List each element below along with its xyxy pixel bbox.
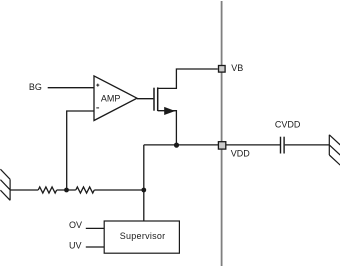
- svg-text:Supervisor: Supervisor: [120, 231, 166, 241]
- svg-text:VDD: VDD: [231, 149, 251, 159]
- svg-text:BG: BG: [29, 82, 42, 92]
- svg-text:AMP: AMP: [101, 93, 121, 103]
- svg-text:OV: OV: [69, 220, 82, 230]
- svg-text:CVDD: CVDD: [275, 119, 301, 129]
- svg-text:VB: VB: [231, 63, 243, 73]
- svg-text:UV: UV: [69, 241, 82, 251]
